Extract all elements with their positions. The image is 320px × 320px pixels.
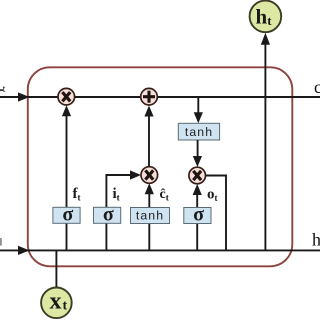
arrowhead: h input into cell	[18, 246, 30, 255]
svg-text:σ: σ	[193, 204, 204, 226]
arrowhead: into output multiplier	[193, 156, 202, 167]
wire: branch up from hidden-state line to h_t	[264, 44, 266, 251]
node x_t (input)	[41, 288, 72, 319]
arrowhead: o into multiplier	[193, 184, 202, 195]
svg-text:h: h	[256, 5, 268, 29]
svg-text:σ: σ	[103, 204, 114, 226]
svg-text:c: c	[314, 77, 320, 97]
arrowhead: into tanh box	[194, 112, 203, 123]
arrowhead: into adder	[144, 106, 153, 117]
wire: tanh output down	[197, 140, 199, 157]
svg-text:ĉt: ĉt	[160, 187, 169, 202]
tanh box (candidate)	[131, 208, 170, 224]
sigma box (forget gate)	[53, 204, 80, 226]
multiplier circle (o x tanh)	[189, 167, 206, 184]
wire: elbow down to hidden-state line	[225, 175, 227, 251]
svg-text:t: t	[267, 13, 272, 28]
multiplier circle (f x c)	[58, 88, 75, 105]
arrowhead: c input into cell	[18, 92, 30, 101]
LSTM cell boundary	[28, 67, 293, 266]
svg-text:σ: σ	[62, 204, 73, 226]
wire: forget-gate stem f	[66, 115, 68, 251]
svg-text:tanh: tanh	[136, 209, 164, 223]
wire: candidate stem c~	[148, 193, 150, 251]
wire: input-gate elbow i (horizontal)	[106, 174, 132, 176]
svg-text:x: x	[50, 288, 62, 314]
wire: output-gate stem o	[196, 194, 198, 251]
svg-text:ot: ot	[207, 187, 218, 203]
node h_(t-1) label remnant (left edge, hidden-state input)	[0, 238, 2, 246]
wire: cell-state line c	[0, 96, 320, 98]
wire: branch from cell-state line down to tanh	[197, 97, 199, 114]
arrowhead: candidate into multiplier	[145, 183, 154, 194]
svg-text:t: t	[63, 299, 68, 314]
wire: x_t up to hidden-state line	[55, 250, 57, 287]
svg-text:t: t	[3, 84, 6, 95]
arrowhead: f into multiplier	[62, 105, 71, 116]
svg-text:ft: ft	[73, 186, 81, 202]
svg-text:tanh: tanh	[185, 125, 213, 139]
wire: hidden-state line h	[0, 249, 320, 251]
tanh box (cell-state activation)	[178, 123, 219, 140]
multiplier circle (i x c~)	[141, 167, 158, 184]
node c_(t-1) label remnant (left edge, cell-state input)	[0, 84, 6, 95]
sigma box (output gate)	[184, 204, 211, 226]
node h_t (output)	[250, 1, 282, 33]
sigma box (input gate)	[94, 204, 121, 226]
svg-text:h: h	[312, 229, 320, 249]
wire: input-gate stem i (vertical)	[105, 174, 107, 250]
wire: multiplier output up to adder	[148, 115, 150, 167]
arrowhead: into h_t node	[261, 33, 270, 45]
adder circle (+)	[141, 88, 158, 105]
arrowhead: i into multiplier	[130, 170, 141, 179]
wire: output multiplier to elbow (horizontal)	[206, 175, 227, 177]
svg-text:it: it	[113, 186, 120, 202]
